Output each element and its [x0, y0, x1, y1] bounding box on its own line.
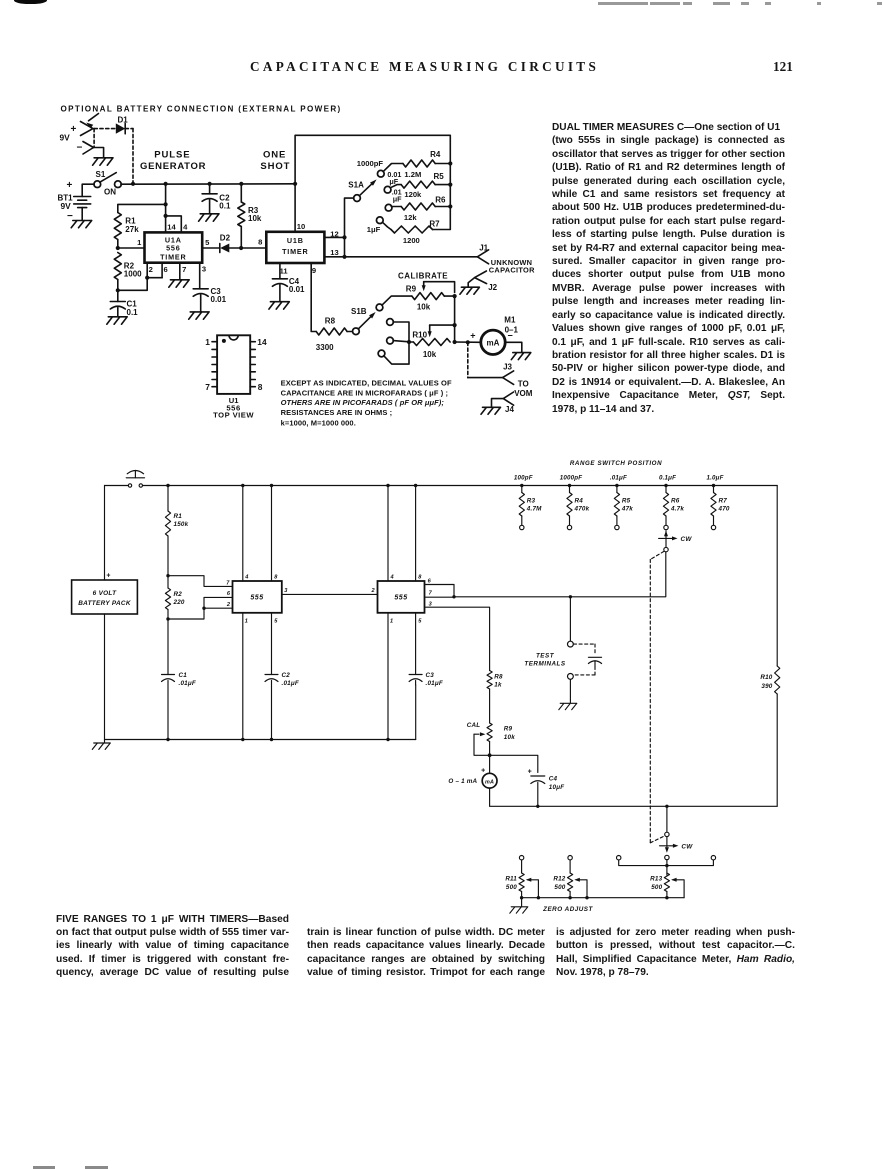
svg-text:6: 6: [227, 591, 231, 597]
pin label 9: [312, 266, 316, 275]
dashed from test cap: [574, 667, 596, 675]
wire pole to wiper: [666, 837, 668, 847]
node R3/D2: [239, 246, 243, 250]
label 0-1: [505, 326, 519, 335]
label J2: [488, 283, 497, 292]
pin label 6 (555b): [428, 579, 432, 585]
wire pin11 to C4: [279, 263, 281, 279]
label 1uF: [367, 225, 381, 234]
svg-text:0.1μF: 0.1μF: [659, 475, 676, 482]
node rail/U1A: [164, 182, 168, 186]
svg-text:3: 3: [429, 601, 433, 607]
terminal R11 top: [519, 856, 523, 860]
label O-1 mA: [448, 778, 477, 785]
jack J3: [503, 371, 514, 385]
node R13/bus: [665, 896, 668, 899]
pot R13 wiper: [671, 878, 684, 898]
label S1: [96, 170, 106, 179]
pot R9 (10k): [487, 723, 515, 742]
resistor R2 (220): [165, 588, 185, 610]
svg-text:500: 500: [651, 884, 662, 891]
svg-text:C4: C4: [549, 776, 558, 783]
node rail/R1: [166, 484, 169, 487]
resistor R4 (470k): [567, 486, 590, 517]
bottom caption column 3: [556, 926, 795, 980]
pin label 10: [297, 222, 305, 231]
wire R12 top: [569, 860, 571, 873]
wire battery to bottom rail: [104, 614, 106, 740]
wire contact to bar: [666, 860, 668, 875]
wire pin3 to C3: [199, 263, 201, 289]
U1 pins left: [212, 342, 217, 387]
pin1 index dot: [222, 339, 226, 343]
switch S1B pole: [353, 328, 360, 335]
pot R11 (500): [505, 873, 524, 892]
svg-text:+: +: [528, 769, 532, 776]
node rail/555a pin4: [241, 484, 244, 487]
svg-text:CW: CW: [681, 536, 693, 543]
wire pin5 to D2: [202, 247, 220, 249]
svg-text:C3: C3: [426, 672, 435, 679]
node R12 wiper/bus: [585, 896, 588, 899]
label .01μF: [610, 475, 627, 482]
wire D2 to pin8: [241, 247, 266, 249]
wire to J3: [468, 377, 503, 379]
svg-text:2: 2: [370, 588, 375, 594]
wire contact3 to R6: [391, 206, 401, 208]
pin label 5: [205, 238, 210, 247]
wire 555b pin5: [415, 613, 417, 675]
node rail/555b pin8: [414, 484, 417, 487]
svg-text:O – 1 mA: O – 1 mA: [448, 778, 477, 785]
switch S1: [94, 173, 121, 188]
svg-text:1: 1: [245, 619, 248, 625]
battery pack box: [72, 580, 138, 614]
svg-text:1.0μF: 1.0μF: [706, 475, 723, 482]
pot R9: [406, 285, 445, 312]
wire R9 right: [444, 295, 454, 297]
wire C1 to ground: [117, 308, 119, 317]
node R1/R2/pin1: [116, 246, 120, 250]
wire top rail: [105, 485, 778, 487]
node R5/bus: [448, 183, 452, 187]
wire C4 to ground: [279, 285, 281, 302]
wire pin12: [324, 236, 344, 238]
wire R6 to contact: [665, 516, 667, 525]
wire R4 to contact: [569, 516, 571, 525]
wire pin2 link: [204, 607, 233, 609]
pot R12 wiper: [574, 878, 587, 898]
wire rail to pin10: [294, 184, 296, 232]
wire pin2/pin6 tie: [118, 263, 162, 291]
switch contact 1000pF: [567, 525, 571, 529]
wire 555b pin3: [425, 607, 490, 670]
wire bus R9-R10: [454, 296, 456, 342]
node C4/rail: [536, 805, 539, 808]
node rail/555b pin4: [386, 484, 389, 487]
resistor R1: [114, 213, 139, 240]
battery BT1 plates: [58, 180, 95, 222]
pin label 4 (555b): [390, 575, 395, 581]
wire 555b pin8: [415, 486, 417, 582]
svg-text:47k: 47k: [621, 506, 633, 513]
svg-text:4: 4: [390, 575, 395, 581]
bottom caption column 1: [56, 913, 289, 980]
svg-text:6: 6: [428, 579, 432, 585]
switch contact left: [617, 856, 621, 860]
pin label 1 (555b): [390, 619, 393, 625]
wire R2 to C1: [117, 280, 119, 302]
label J4: [505, 405, 514, 414]
U1 pins right: [250, 342, 255, 387]
test terminal lower: [568, 674, 574, 680]
wire pin13: [324, 256, 344, 258]
terminal R12 top: [568, 856, 572, 860]
ground (J4): [481, 407, 501, 414]
svg-text:6 VOLT: 6 VOLT: [93, 590, 117, 597]
pot R10 wiper: [428, 325, 455, 337]
capacitor C3: [193, 287, 226, 304]
resistor R7: [391, 219, 440, 233]
pin label 1 (555a): [245, 619, 248, 625]
svg-text:7: 7: [429, 591, 433, 597]
right column text: DUAL TIMER MEASURES C: [552, 121, 785, 416]
arrow to battery clip: [86, 114, 98, 129]
wire R8 to R9: [489, 689, 491, 723]
wire pin1: [118, 247, 145, 249]
wire R2 to C1: [167, 610, 169, 675]
resistor R4: [403, 150, 441, 167]
svg-text:R10: R10: [760, 674, 772, 681]
wire R3 to pin8 node: [240, 227, 242, 249]
svg-text:150k: 150k: [174, 521, 189, 528]
capacitor C4: [272, 277, 305, 294]
node meter top: [488, 753, 492, 757]
wire clip minus to ground: [94, 148, 104, 158]
node D1/rail junction: [131, 182, 135, 186]
wire C2 to ground: [209, 200, 211, 214]
pin label 2: [149, 265, 153, 274]
wire to test terminal: [569, 597, 571, 641]
label 1000pF: [560, 475, 583, 482]
label RANGE SWITCH POSITION: [570, 460, 662, 467]
node rail/R6: [664, 484, 667, 487]
node bar/R13: [665, 864, 668, 867]
label TO VOM: [514, 379, 533, 398]
node rail/one-shot: [293, 182, 297, 186]
wire R10 left: [409, 341, 413, 343]
node R10 right: [453, 340, 457, 344]
svg-text:7: 7: [226, 580, 230, 586]
label 100pF: [514, 475, 533, 482]
wire contact b: [393, 341, 409, 342]
wire pin13 to J1: [345, 256, 478, 258]
switch S1A wiper pole: [354, 195, 361, 202]
node pin12 bus: [342, 235, 346, 239]
ground (test terminal): [559, 703, 577, 709]
svg-text:ZERO ADJUST: ZERO ADJUST: [542, 906, 593, 913]
test capacitor: [588, 657, 601, 666]
label C4 +: [528, 769, 532, 776]
node bottom rail/555b pin1: [386, 738, 389, 741]
wire node to meter: [489, 755, 491, 773]
op-amp U1B timer: [266, 232, 324, 263]
dashed to test cap: [574, 644, 596, 653]
label TEST TERMINALS: [524, 652, 566, 667]
wire C4 to rail: [537, 783, 539, 807]
wire contact1 to R4: [383, 164, 403, 172]
capacitor C3 (.01uF): [409, 672, 443, 687]
ground (meter): [511, 353, 531, 360]
wire R8 to S1B pole: [347, 331, 353, 333]
pin label 1: [137, 238, 142, 247]
svg-text:3: 3: [284, 588, 288, 594]
svg-text:TEST: TEST: [536, 652, 555, 659]
wire contact a: [393, 322, 409, 342]
svg-text:10μF: 10μF: [549, 784, 564, 791]
label M1: [504, 315, 516, 324]
node meter plus: [466, 340, 470, 344]
svg-text:4.7k: 4.7k: [670, 506, 684, 513]
pin label 13: [330, 248, 338, 257]
note text: [281, 378, 452, 427]
label UNKNOWN CAPACITOR: [489, 258, 535, 275]
node R12/bus: [568, 896, 571, 899]
pin label 14: [167, 223, 176, 232]
wire R12 bottom: [569, 892, 571, 898]
node rail/R7: [712, 484, 715, 487]
wire 555b pin7: [425, 596, 455, 598]
resistor R6 (4.7k): [663, 486, 684, 517]
svg-text:CAL: CAL: [467, 722, 481, 729]
wire R11 ground stub: [521, 898, 523, 907]
svg-text:8: 8: [274, 575, 278, 581]
capacitor C2: [202, 193, 231, 210]
resistor R3 (4.7M): [519, 486, 542, 517]
pin label 4 (555a): [244, 575, 249, 581]
scan artifacts: gray marks bottom edge: [33, 1166, 55, 1169]
pot R13 (500): [650, 873, 669, 892]
pin label 2 (555b): [370, 588, 375, 594]
wire meter to ground: [505, 342, 522, 352]
label 120k: [404, 190, 422, 199]
wire bottom rail up to C3: [415, 685, 417, 740]
pin label 8 (top view): [258, 382, 263, 392]
node rail/R4: [568, 484, 571, 487]
switch S1B contact cal: [376, 304, 383, 311]
wire 555a pin4: [242, 486, 244, 582]
wire R7 right to bus: [433, 164, 451, 230]
ground (C4): [269, 302, 289, 309]
wire R7 to contact: [713, 516, 715, 525]
node R11/bus: [520, 896, 523, 899]
rotary switch pole (lower deck): [665, 832, 669, 836]
label ON: [104, 188, 116, 197]
pin label 3: [202, 264, 206, 273]
svg-text:R11: R11: [505, 876, 517, 883]
svg-text:R13: R13: [650, 876, 662, 883]
svg-text:220: 220: [173, 599, 185, 606]
ground (C1): [107, 317, 127, 324]
bottom caption column 2: [307, 926, 545, 980]
node pins2-6: [145, 276, 149, 280]
label 12k: [404, 213, 417, 222]
pin label 4: [183, 223, 188, 232]
svg-text:BATTERY PACK: BATTERY PACK: [78, 600, 131, 607]
rotary switch CW mark (lower deck): [660, 843, 694, 850]
label ZERO ADJUST: [542, 906, 593, 913]
svg-text:R6: R6: [671, 498, 680, 505]
svg-text:.01μF: .01μF: [282, 680, 299, 687]
switch S1A contact .01uF: [385, 204, 392, 211]
pin label 8 (555b): [418, 575, 422, 581]
node bottom rail/555a pin1: [241, 738, 244, 741]
pin label 12: [330, 229, 338, 238]
wire R6 right: [435, 206, 450, 208]
label 1.2M: [404, 170, 421, 179]
label CAL: [467, 722, 481, 729]
IC U1 556 top view outline: [217, 335, 250, 394]
switch S1A contact 1uF: [376, 217, 383, 224]
pot R11 wiper: [526, 878, 539, 898]
wire rail to lower pole: [666, 806, 668, 831]
switch S1A wiper blade: [359, 179, 376, 195]
wire R9 to node: [489, 742, 491, 756]
svg-text:R2: R2: [174, 591, 183, 598]
wire contact bar: [619, 860, 714, 866]
switch contact (lower deck): [665, 855, 669, 859]
resistor R8 (1k): [487, 671, 503, 690]
pin label 7 (top view): [205, 382, 210, 392]
svg-text:4: 4: [244, 575, 249, 581]
node R9 out: [453, 294, 457, 298]
wire R10 to meter: [455, 341, 481, 343]
switch contact 100pF: [520, 525, 524, 529]
dashed wire D1 to rail: [132, 129, 134, 183]
wire rail to battery: [104, 486, 106, 581]
node rail/R3: [520, 484, 523, 487]
resistor R5 (47k): [614, 486, 633, 517]
wire 555b pin1: [387, 613, 389, 740]
pin label 7: [182, 265, 186, 274]
wire node to C4: [490, 755, 538, 772]
svg-text:1k: 1k: [494, 682, 502, 689]
label OPTIONAL BATTERY CONNECTION: [61, 104, 342, 113]
ground (battery rail): [92, 740, 110, 750]
svg-text:TERMINALS: TERMINALS: [524, 661, 566, 668]
label 1.0μF: [706, 475, 723, 482]
wire R5 right: [435, 184, 450, 186]
pin label 1 (top view): [205, 337, 210, 347]
node R10 left: [407, 340, 411, 344]
svg-text:R9: R9: [504, 726, 513, 733]
op-amp U1A 556 timer: [145, 232, 203, 262]
svg-text:R3: R3: [527, 498, 536, 505]
wire rail to R1 branch: [165, 184, 167, 216]
node R10 wiper bus: [453, 323, 457, 327]
wire BT1 to ground: [81, 208, 83, 221]
svg-text:mA: mA: [485, 779, 494, 785]
wire contact2 to R5: [390, 185, 401, 188]
wire R11 bottom: [521, 892, 523, 898]
node R1 branch: [164, 202, 168, 206]
jack J1: [477, 250, 488, 264]
pin label 5 (555b): [418, 619, 422, 625]
svg-text:.01μF: .01μF: [179, 680, 196, 687]
ground (pin7): [169, 280, 189, 287]
battery clip - terminal: [77, 142, 94, 155]
pin label 7 (555a): [226, 580, 230, 586]
svg-text:1: 1: [390, 619, 393, 625]
rotary switch wiper arrow (top deck): [664, 531, 668, 548]
pin label 6: [163, 265, 167, 274]
pin label 8: [258, 237, 262, 246]
svg-text:R4: R4: [575, 498, 584, 505]
scan artifact: black blob top-left: [14, 0, 47, 4]
node R6/bus: [448, 204, 452, 208]
switch S1A contact 0.01uF: [384, 186, 391, 193]
resistor R8: [316, 317, 347, 352]
wire rail to C2: [209, 184, 211, 194]
wire R11 top: [521, 860, 523, 873]
label 1000pF: [357, 159, 384, 168]
svg-text:390: 390: [761, 683, 772, 690]
svg-text:5: 5: [418, 619, 422, 625]
wire meter to rail: [489, 788, 491, 806]
wire pole to pin12/13 bus: [345, 198, 354, 257]
wire R3 to contact: [521, 516, 523, 525]
node rail/R3: [239, 182, 243, 186]
svg-text:R1: R1: [174, 513, 183, 520]
label battery plus: [106, 573, 110, 580]
ground (external battery): [93, 158, 113, 165]
dashed wire to J3: [467, 342, 469, 377]
ground (BT1): [71, 221, 92, 228]
svg-text:10k: 10k: [504, 734, 515, 741]
wire pin7: [179, 263, 181, 280]
label CALIBRATE: [398, 272, 448, 281]
wire 555a pin1: [242, 613, 244, 740]
meter mA: [482, 773, 497, 788]
svg-text:R5: R5: [622, 498, 631, 505]
pin label 3 (555a): [284, 588, 288, 594]
svg-text:4.7M: 4.7M: [526, 506, 542, 513]
svg-text:470: 470: [718, 506, 730, 513]
wire contact4 to R7: [382, 222, 391, 229]
node pin6/7: [452, 595, 455, 598]
wire pin2 to R2 bottom: [168, 608, 204, 619]
label S1A: [348, 180, 364, 189]
svg-text:CW: CW: [681, 843, 693, 850]
meter M1: [481, 330, 505, 354]
node bottom rail/555a pin5: [270, 738, 273, 741]
resistor R10 (390): [760, 486, 779, 807]
wire C2 to bottom rail: [271, 681, 273, 740]
wire C3 to ground: [200, 295, 202, 312]
wire test terminal to ground: [569, 679, 571, 703]
pin label 8 (555a): [274, 575, 278, 581]
label meter +: [481, 768, 485, 775]
page header title: [250, 59, 599, 75]
wire R1 to R2: [167, 536, 169, 588]
wire R13 bottom: [666, 892, 668, 898]
svg-text:500: 500: [554, 884, 565, 891]
wire pin7 link: [168, 576, 233, 587]
resistor R7 (470): [711, 486, 730, 517]
node pin14 junction: [164, 214, 168, 218]
wire 555a pin3 to 555b pin2: [282, 593, 378, 595]
wire pin14 bracket: [166, 216, 182, 233]
